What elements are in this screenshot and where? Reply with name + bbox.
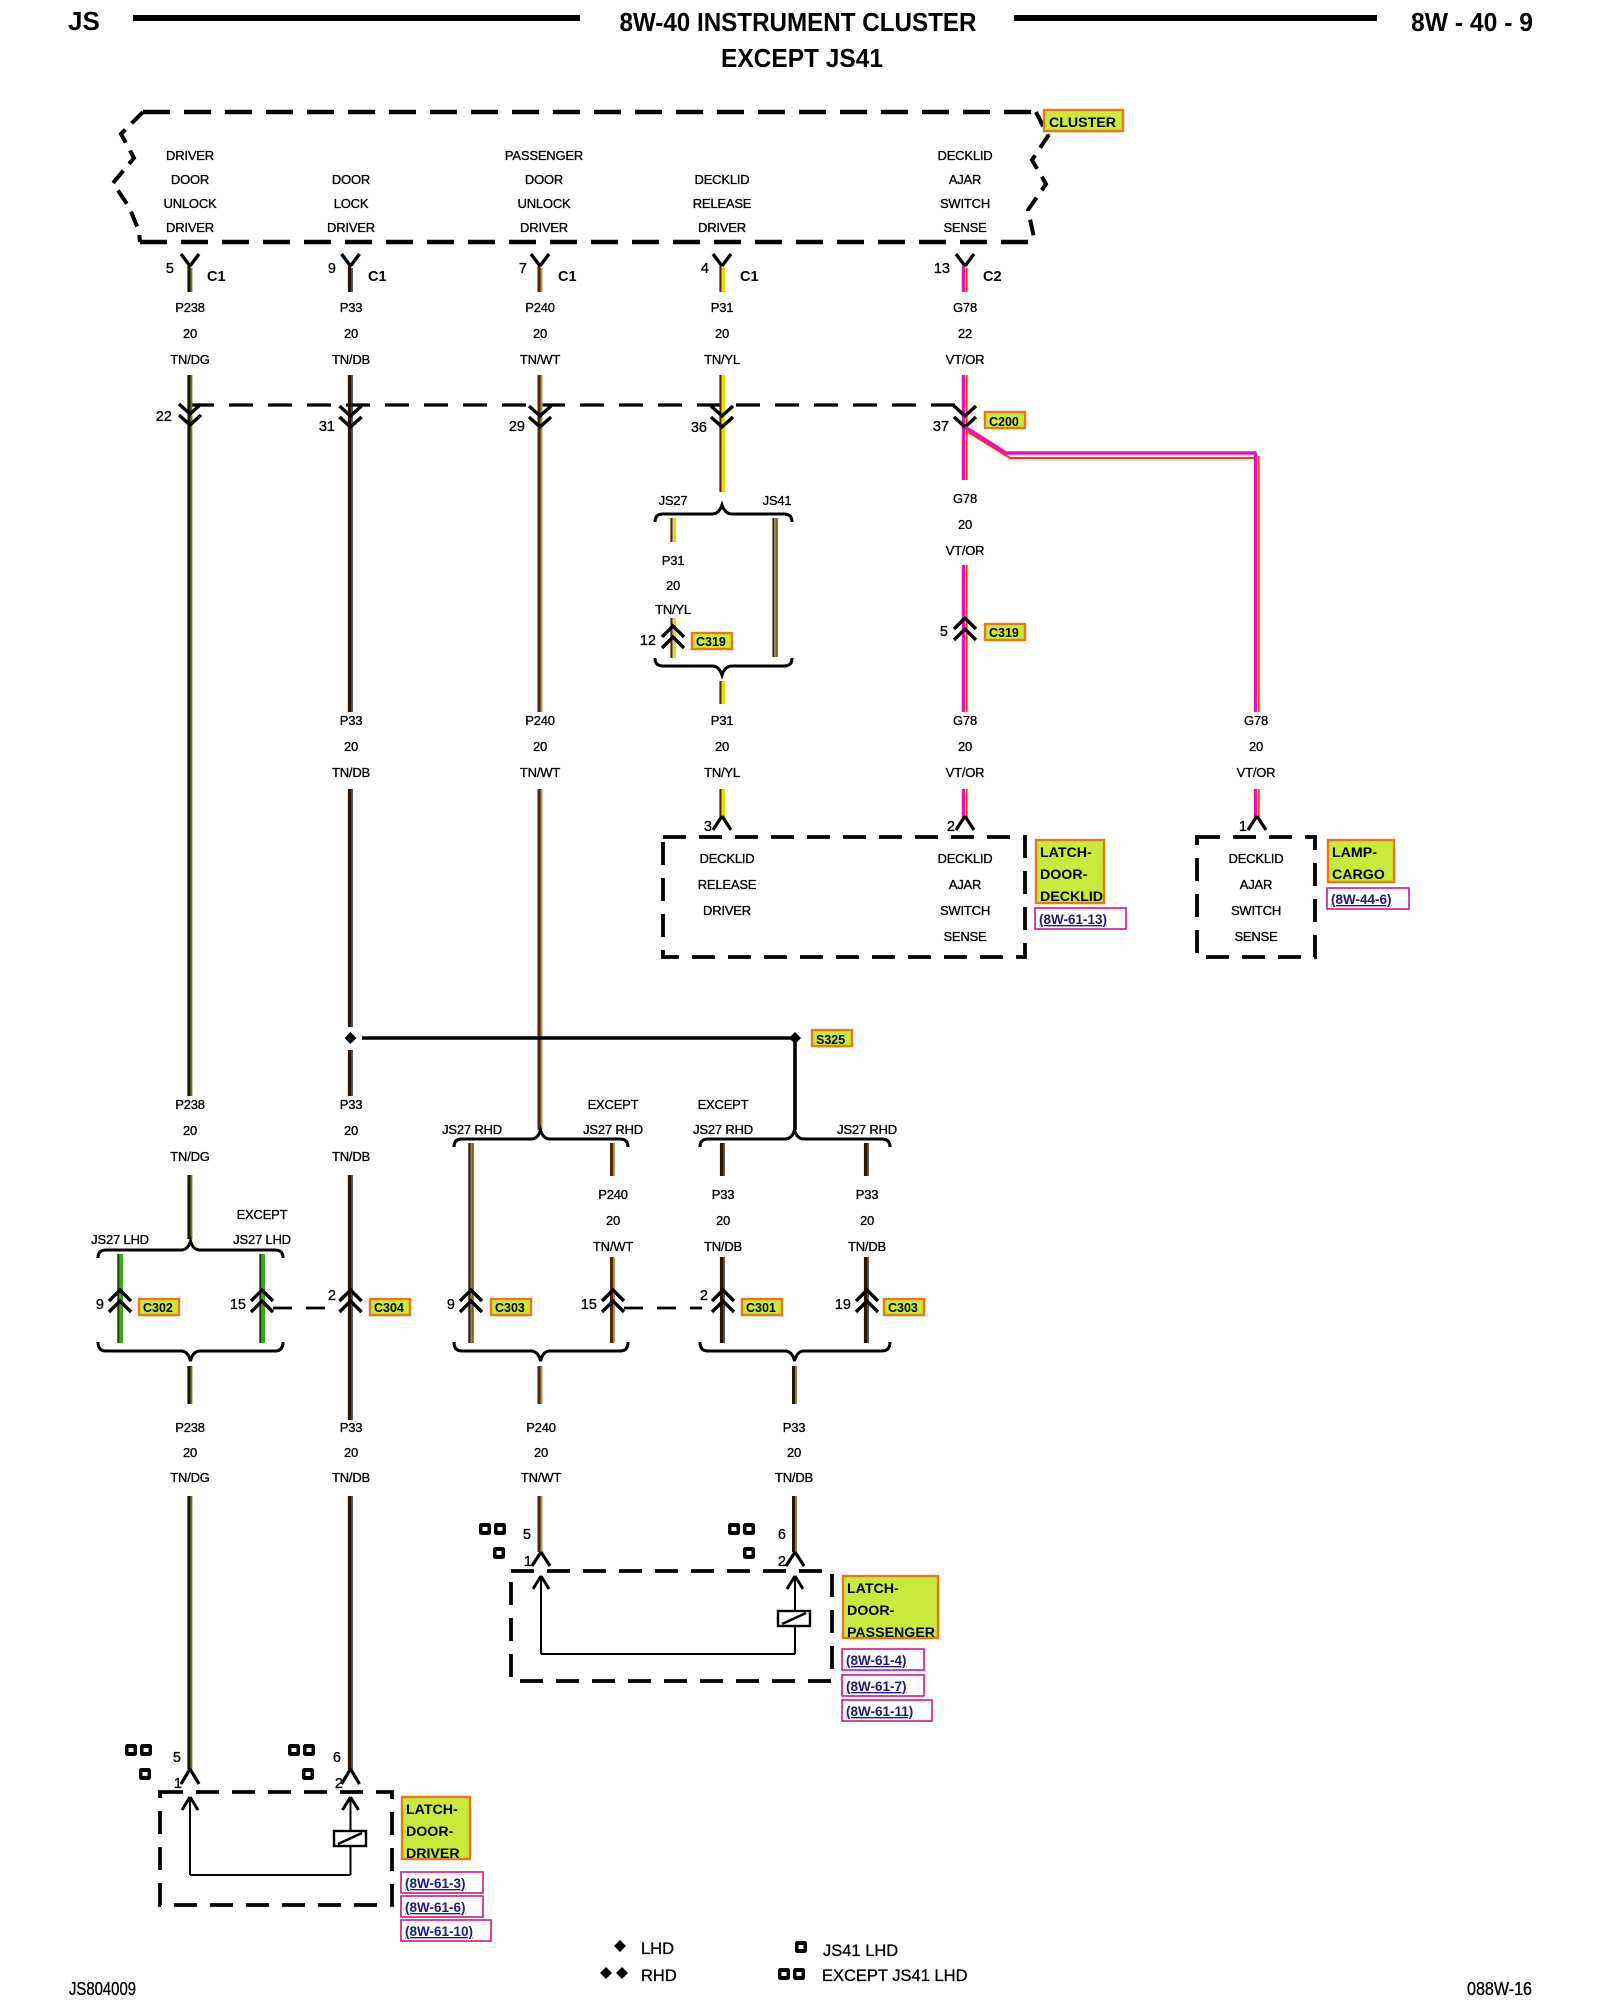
svg-text:P238: P238	[175, 300, 205, 315]
svg-text:P33: P33	[340, 713, 363, 728]
svg-text:JS27 LHD: JS27 LHD	[233, 1232, 291, 1247]
svg-text:EXCEPT: EXCEPT	[698, 1097, 749, 1112]
svg-text:20: 20	[715, 739, 729, 754]
switch arrow left (driver latch)	[182, 1797, 198, 1810]
label LAMP-CARGO	[1328, 840, 1394, 882]
svg-text:20: 20	[344, 326, 358, 341]
reference (8W-61-4)	[842, 1649, 924, 1670]
wire P31 upper (TN/YL)	[719, 375, 721, 492]
svg-text:5: 5	[166, 261, 174, 277]
svg-text:JS27: JS27	[659, 493, 688, 508]
svg-text:DECKLID: DECKLID	[695, 172, 750, 187]
svg-text:P240: P240	[598, 1187, 628, 1202]
svg-text:G78: G78	[1244, 713, 1268, 728]
svg-text:P238: P238	[175, 1097, 205, 1112]
svg-text:EXCEPT: EXCEPT	[588, 1097, 639, 1112]
terminal pin 3 (inverted Y)	[713, 816, 731, 830]
svg-text:P31: P31	[711, 713, 734, 728]
reference (8W-61-7)	[842, 1675, 924, 1696]
svg-text:JS27 RHD: JS27 RHD	[583, 1122, 643, 1137]
wire P240 stub below C1 (TN/WT)	[538, 266, 541, 292]
marker squares EXCEPT JS41 LHD (passenger pin 2)	[728, 1523, 740, 1535]
svg-text:TN/YL: TN/YL	[704, 765, 740, 780]
brace bottom C302 group	[98, 1342, 283, 1361]
svg-text:JS804009: JS804009	[69, 1979, 136, 1999]
svg-text:P33: P33	[340, 300, 363, 315]
svg-text:JS: JS	[68, 6, 100, 36]
svg-text:5: 5	[173, 1750, 181, 1766]
svg-text:DOOR-: DOOR-	[1040, 867, 1088, 883]
cluster box bottom dashed line	[140, 240, 1035, 244]
wire G78 into decklid box (VT/OR)	[962, 789, 965, 817]
wire P31 seg at C319 (TN/YL)	[670, 618, 672, 658]
marker squares EXCEPT JS41 LHD (driver pin 2)	[288, 1744, 300, 1756]
svg-text:SENSE: SENSE	[1234, 929, 1278, 944]
wire P238 main (TN/DG)	[187, 375, 190, 1096]
svg-text:CARGO: CARGO	[1332, 867, 1385, 883]
connector C302 pin 15 chevrons (up)	[251, 1290, 273, 1312]
svg-text:P240: P240	[525, 300, 555, 315]
connector C303 pin 15 chevrons (up)	[602, 1290, 624, 1312]
svg-text:S325: S325	[816, 1033, 845, 1047]
wire P31 below brace (TN/YL)	[719, 681, 721, 704]
svg-text:15: 15	[230, 1297, 246, 1313]
svg-text:EXCEPT: EXCEPT	[237, 1207, 288, 1222]
switch arrow right (passenger latch)	[787, 1576, 803, 1589]
svg-text:20: 20	[534, 1445, 548, 1460]
wire G78 branch vertical (VT/OR)	[1254, 453, 1257, 712]
terminal into driver latch left (inverted Y)	[181, 1769, 199, 1784]
svg-text:TN/DB: TN/DB	[332, 765, 370, 780]
svg-text:VT/OR: VT/OR	[946, 765, 985, 780]
wire P31 into decklid box (TN/YL)	[719, 789, 721, 817]
svg-text:LATCH-: LATCH-	[1040, 845, 1092, 861]
svg-text:DOOR: DOOR	[525, 172, 563, 187]
svg-text:20: 20	[787, 1445, 801, 1460]
svg-text:1: 1	[1239, 819, 1247, 835]
svg-text:(8W-61-7): (8W-61-7)	[846, 1679, 907, 1694]
terminal into passenger latch right (inverted Y)	[786, 1552, 804, 1566]
svg-text:TN/WT: TN/WT	[521, 1470, 561, 1485]
wire P31 stub below C1 (TN/YL)	[719, 266, 721, 292]
svg-text:20: 20	[666, 578, 680, 593]
wire G78 branch to cargo lamp (VT/OR) diagonal+horizontal	[968, 432, 1256, 458]
svg-text:8W-40 INSTRUMENT CLUSTER: 8W-40 INSTRUMENT CLUSTER	[620, 7, 977, 37]
svg-text:8W - 40 - 9: 8W - 40 - 9	[1411, 7, 1533, 37]
connector C303 pin 19 chevrons (up)	[856, 1290, 878, 1312]
splice S325 node left (diamond)	[345, 1032, 357, 1044]
svg-text:2: 2	[947, 819, 955, 835]
svg-text:LHD: LHD	[641, 1940, 674, 1958]
wire P33 to passenger latch (black)	[792, 1496, 795, 1552]
svg-text:DRIVER: DRIVER	[406, 1846, 460, 1862]
wire P240 lower (TN/WT)	[538, 789, 541, 1130]
svg-text:29: 29	[509, 419, 525, 435]
svg-text:G78: G78	[953, 491, 977, 506]
svg-text:LATCH-: LATCH-	[847, 1581, 899, 1597]
label C304	[370, 1299, 410, 1315]
label C302	[139, 1299, 179, 1315]
svg-text:20: 20	[533, 326, 547, 341]
svg-text:1: 1	[524, 1554, 532, 1570]
svg-text:DRIVER: DRIVER	[327, 220, 375, 235]
svg-text:P238: P238	[175, 1420, 205, 1435]
brace bottom C303 group	[454, 1342, 628, 1361]
svg-text:DRIVER: DRIVER	[520, 220, 568, 235]
svg-text:DRIVER: DRIVER	[166, 220, 214, 235]
wire G78 stub below C2 (VT/OR)	[962, 266, 965, 292]
component box DECKLID AJAR SWITCH SENSE (cargo)	[1197, 837, 1315, 957]
svg-text:DOOR-: DOOR-	[847, 1603, 895, 1619]
connector C302 pin 9 chevrons (up)	[109, 1290, 131, 1312]
terminal pin 2 (inverted Y)	[956, 816, 974, 830]
svg-text:20: 20	[344, 1123, 358, 1138]
svg-text:20: 20	[716, 1213, 730, 1228]
connector C301 pin 2 chevrons (up)	[712, 1290, 734, 1312]
header rule right	[1014, 15, 1377, 21]
svg-text:9: 9	[447, 1297, 455, 1313]
svg-text:TN/DB: TN/DB	[332, 352, 370, 367]
wire P33 branch2 seg2 (TN/DB)	[864, 1257, 867, 1343]
label CLUSTER	[1044, 110, 1123, 131]
svg-text:TN/YL: TN/YL	[704, 352, 740, 367]
wire P33 EXCEPT JS27 RHD stub (TN/DB)	[720, 1143, 723, 1176]
svg-text:12: 12	[640, 633, 656, 649]
svg-text:P33: P33	[712, 1187, 735, 1202]
svg-text:2: 2	[778, 1554, 786, 1570]
marker square JS41 LHD (passenger pin 1)	[493, 1547, 505, 1559]
svg-text:(8W-61-11): (8W-61-11)	[846, 1704, 913, 1719]
wire P33 branch1 seg2 (TN/DB)	[720, 1257, 723, 1343]
svg-text:4: 4	[701, 261, 709, 277]
svg-text:PASSENGER: PASSENGER	[847, 1625, 935, 1641]
svg-text:LAMP-: LAMP-	[1332, 845, 1377, 861]
wire P31 stub JS27 branch (TN/YL)	[670, 518, 672, 542]
svg-text:DECKLID: DECKLID	[1229, 851, 1284, 866]
svg-text:JS41: JS41	[763, 493, 792, 508]
svg-text:AJAR: AJAR	[949, 877, 981, 892]
svg-text:5: 5	[940, 624, 948, 640]
dashed link C302 to C304	[273, 1307, 338, 1310]
wire P33 lower (TN/DB) through S325	[348, 789, 351, 1027]
svg-text:5: 5	[523, 1527, 531, 1543]
svg-text:EXCEPT JS41 LHD: EXCEPT JS41 LHD	[822, 1967, 968, 1985]
svg-text:TN/YL: TN/YL	[655, 602, 691, 617]
connector C1 pin 9 (Y symbol)	[342, 254, 360, 266]
svg-text:CLUSTER: CLUSTER	[1049, 115, 1116, 131]
svg-text:JS27 RHD: JS27 RHD	[442, 1122, 502, 1137]
wire P240 main (TN/WT)	[538, 375, 541, 712]
svg-text:C200: C200	[989, 415, 1019, 429]
svg-text:SWITCH: SWITCH	[940, 196, 990, 211]
svg-text:SWITCH: SWITCH	[1231, 903, 1281, 918]
svg-text:20: 20	[183, 1445, 197, 1460]
label C319	[985, 624, 1025, 640]
label C303	[884, 1299, 924, 1315]
svg-text:C303: C303	[888, 1301, 918, 1315]
svg-text:C304: C304	[374, 1301, 404, 1315]
wire P33 main (TN/DB)	[348, 375, 351, 712]
terminal into passenger latch left (inverted Y)	[532, 1552, 550, 1566]
wire P238 to driver latch (TN/DG)	[187, 1496, 190, 1769]
wire G78 into cargo decklid switch (VT/OR)	[1254, 789, 1257, 817]
svg-text:DECKLID: DECKLID	[938, 851, 993, 866]
svg-text:7: 7	[519, 261, 527, 277]
wire G78 upper (VT/OR)	[962, 375, 965, 480]
svg-text:VT/OR: VT/OR	[946, 543, 985, 558]
svg-text:DECKLID: DECKLID	[938, 148, 993, 163]
wire P238 stub below C1 (TN/DG)	[187, 266, 190, 292]
label S325	[812, 1030, 852, 1046]
legend EXCEPT JS41 LHD squares	[778, 1968, 790, 1980]
connector C304 pin 2 chevrons (up)	[340, 1290, 362, 1312]
svg-text:G78: G78	[953, 300, 977, 315]
svg-text:TN/WT: TN/WT	[520, 765, 560, 780]
svg-text:P33: P33	[340, 1097, 363, 1112]
svg-text:SENSE: SENSE	[943, 929, 987, 944]
svg-text:JS27 LHD: JS27 LHD	[91, 1232, 149, 1247]
wire S325 to C301 brace (black)	[793, 1038, 797, 1130]
svg-text:(8W-61-13): (8W-61-13)	[1039, 912, 1107, 927]
reference (8W-61-10)	[401, 1920, 491, 1941]
marker square JS41 LHD (driver pin 2)	[302, 1768, 314, 1780]
legend RHD diamonds	[600, 1967, 612, 1979]
wire P240 JS27 RHD branch (TN/WT long)	[468, 1143, 470, 1343]
svg-text:RHD: RHD	[641, 1967, 677, 1985]
svg-text:20: 20	[860, 1213, 874, 1228]
svg-text:C319: C319	[989, 626, 1019, 640]
svg-text:P33: P33	[340, 1420, 363, 1435]
svg-text:20: 20	[344, 1445, 358, 1460]
svg-text:P33: P33	[856, 1187, 879, 1202]
wire JS41 branch (TN/YL dark)	[773, 518, 775, 657]
svg-text:15: 15	[581, 1297, 597, 1313]
wire P240 branch seg2 (TN/WT)	[610, 1257, 613, 1343]
cluster box left torn edge	[113, 112, 143, 242]
wire P33 to driver latch (TN/DB)	[348, 1496, 351, 1769]
svg-text:37: 37	[933, 419, 949, 435]
svg-text:TN/DB: TN/DB	[332, 1470, 370, 1485]
svg-text:9: 9	[96, 1297, 104, 1313]
reference (8W-61-11)	[842, 1700, 932, 1721]
wire P240 below brace (TN/WT)	[538, 1366, 541, 1404]
svg-text:088W-16: 088W-16	[1467, 1979, 1532, 1999]
legend JS41 LHD square	[795, 1941, 807, 1953]
svg-text:DRIVER: DRIVER	[698, 220, 746, 235]
C200 pin 29 chevrons	[529, 406, 551, 427]
wire P238 into brace (TN/DG)	[187, 1175, 190, 1239]
svg-text:(8W-44-6): (8W-44-6)	[1331, 892, 1392, 907]
wire P238 EXCEPT JS27 LHD branch (green)	[259, 1254, 261, 1343]
svg-text:C1: C1	[558, 269, 577, 285]
svg-text:22: 22	[156, 409, 172, 425]
svg-text:20: 20	[183, 326, 197, 341]
svg-text:UNLOCK: UNLOCK	[518, 196, 572, 211]
svg-text:20: 20	[958, 517, 972, 532]
connector C200 dashed line	[190, 403, 965, 406]
svg-text:AJAR: AJAR	[949, 172, 981, 187]
reference (8W-61-3)	[401, 1872, 483, 1893]
brace bottom C301 group	[700, 1342, 890, 1361]
component box DECKLID RELEASE DRIVER / DECKLID AJAR SWITCH SENSE	[663, 837, 1025, 957]
header rule left	[133, 15, 580, 21]
connector C319 pin 5 chevrons (up)	[954, 618, 976, 640]
svg-text:DRIVER: DRIVER	[703, 903, 751, 918]
svg-text:3: 3	[704, 819, 712, 835]
svg-text:SENSE: SENSE	[943, 220, 987, 235]
svg-text:DOOR-: DOOR-	[406, 1824, 454, 1840]
reference (8W-61-13)	[1035, 908, 1126, 929]
svg-text:(8W-61-4): (8W-61-4)	[846, 1653, 907, 1668]
svg-text:(8W-61-3): (8W-61-3)	[405, 1876, 466, 1891]
svg-text:JS27 RHD: JS27 RHD	[837, 1122, 897, 1137]
legend LHD diamond	[614, 1940, 626, 1952]
svg-text:P240: P240	[526, 1420, 556, 1435]
marker squares EXCEPT JS41 LHD (passenger pin 1)	[479, 1523, 491, 1535]
C200 pin 31 chevrons	[340, 406, 362, 427]
relay element (passenger latch)	[778, 1611, 810, 1626]
splice S325 node right (diamond)	[789, 1032, 801, 1044]
splice S325 bus wire	[362, 1036, 795, 1040]
relay element (driver latch)	[334, 1831, 366, 1846]
svg-text:JS41 LHD: JS41 LHD	[823, 1942, 898, 1960]
wire P238 below brace (TN/DG)	[187, 1366, 190, 1404]
connector C303 pin 9 chevrons (up)	[460, 1290, 482, 1312]
link wire inside driver latch	[190, 1874, 351, 1876]
svg-text:C2: C2	[983, 269, 1002, 285]
wire P33 through C304 (TN/DB)	[348, 1175, 351, 1420]
svg-text:AJAR: AJAR	[1240, 877, 1272, 892]
svg-text:TN/DB: TN/DB	[704, 1239, 742, 1254]
svg-text:9: 9	[328, 261, 336, 277]
svg-text:PASSENGER: PASSENGER	[505, 148, 583, 163]
brace bottom (JS27/JS41)	[655, 658, 792, 675]
svg-text:20: 20	[344, 739, 358, 754]
connector C1 pin 7 (Y symbol)	[531, 254, 549, 266]
svg-text:6: 6	[333, 1750, 341, 1766]
svg-text:LATCH-: LATCH-	[406, 1802, 458, 1818]
wire P33 JS27 RHD stub (TN/DB)	[864, 1143, 867, 1176]
svg-text:31: 31	[319, 419, 335, 435]
wire P33 stub below C1 (TN/DB)	[348, 266, 351, 292]
label LATCH-DOOR-DECKLID	[1036, 840, 1104, 903]
component box LATCH-DOOR-PASSENGER	[511, 1571, 832, 1681]
label C303	[491, 1299, 531, 1315]
C200 pin 37 chevrons	[954, 406, 976, 427]
marker square JS41 LHD (passenger pin 2)	[743, 1547, 755, 1559]
svg-text:20: 20	[1249, 739, 1263, 754]
svg-text:VT/OR: VT/OR	[1237, 765, 1276, 780]
svg-text:TN/DG: TN/DG	[170, 1149, 210, 1164]
wire P240 to passenger latch (TN/WT)	[538, 1496, 541, 1552]
brace top C301 group	[700, 1130, 890, 1147]
label LATCH-DOOR-PASSENGER	[843, 1576, 938, 1638]
svg-text:DECKLID: DECKLID	[700, 851, 755, 866]
svg-text:13: 13	[934, 261, 950, 277]
wire P238 JS27 LHD branch (green)	[117, 1254, 119, 1343]
svg-text:20: 20	[183, 1123, 197, 1138]
svg-text:36: 36	[691, 420, 707, 436]
svg-text:C301: C301	[746, 1301, 776, 1315]
svg-text:(8W-61-6): (8W-61-6)	[405, 1900, 466, 1915]
label C319	[692, 633, 732, 649]
svg-text:P31: P31	[662, 553, 685, 568]
link wire inside passenger latch	[541, 1653, 795, 1655]
svg-text:20: 20	[715, 326, 729, 341]
wire P33 below brace (black)	[792, 1366, 795, 1404]
label C200	[985, 412, 1025, 428]
connector C319 pin 12 chevrons (up)	[662, 626, 684, 648]
reference (8W-44-6)	[1327, 888, 1409, 909]
svg-text:P31: P31	[711, 300, 734, 315]
svg-text:C1: C1	[207, 269, 226, 285]
C200 pin 36 chevrons	[711, 406, 733, 427]
reference (8W-61-6)	[401, 1896, 483, 1917]
svg-text:EXCEPT JS41: EXCEPT JS41	[721, 43, 883, 73]
connector C1 pin 5 (Y symbol)	[181, 254, 199, 266]
svg-text:P240: P240	[525, 713, 555, 728]
brace top C302 group	[98, 1241, 283, 1258]
label C301	[742, 1299, 782, 1315]
svg-text:2: 2	[328, 1288, 336, 1304]
brace top (JS27/JS41)	[655, 505, 792, 522]
svg-text:C302: C302	[143, 1301, 173, 1315]
svg-text:P33: P33	[783, 1420, 806, 1435]
svg-text:1: 1	[174, 1776, 182, 1792]
svg-text:TN/WT: TN/WT	[593, 1239, 633, 1254]
terminal pin 1 (inverted Y)	[1248, 816, 1266, 830]
svg-text:TN/DB: TN/DB	[848, 1239, 886, 1254]
svg-text:LOCK: LOCK	[334, 196, 369, 211]
label LATCH-DOOR-DRIVER	[402, 1797, 470, 1859]
svg-text:VT/OR: VT/OR	[946, 352, 985, 367]
svg-text:2: 2	[700, 1288, 708, 1304]
svg-text:G78: G78	[953, 713, 977, 728]
svg-text:UNLOCK: UNLOCK	[164, 196, 218, 211]
wire P240 EXCEPT JS27 RHD stub (TN/WT)	[610, 1143, 613, 1176]
component box LATCH-DOOR-DRIVER	[160, 1792, 392, 1905]
marker square JS41 LHD (driver pin 1)	[139, 1768, 151, 1780]
dashed link C303 to C301	[624, 1307, 702, 1310]
svg-text:TN/WT: TN/WT	[520, 352, 560, 367]
svg-text:DOOR: DOOR	[171, 172, 209, 187]
connector C1 pin 4 (Y symbol)	[713, 254, 731, 266]
svg-text:20: 20	[958, 739, 972, 754]
svg-text:20: 20	[533, 739, 547, 754]
svg-text:TN/DG: TN/DG	[170, 352, 210, 367]
svg-text:22: 22	[958, 326, 972, 341]
svg-text:C1: C1	[368, 269, 387, 285]
svg-text:DRIVER: DRIVER	[166, 148, 214, 163]
svg-text:C1: C1	[740, 269, 759, 285]
svg-text:19: 19	[835, 1297, 851, 1313]
svg-text:20: 20	[606, 1213, 620, 1228]
switch arrow left (passenger latch)	[533, 1576, 549, 1589]
svg-text:SWITCH: SWITCH	[940, 903, 990, 918]
brace top C303 group	[454, 1130, 628, 1147]
svg-text:DECKLID: DECKLID	[1040, 889, 1103, 905]
svg-text:RELEASE: RELEASE	[693, 196, 752, 211]
svg-text:TN/DB: TN/DB	[775, 1470, 813, 1485]
cluster box right torn edge	[1028, 112, 1048, 242]
svg-text:RELEASE: RELEASE	[698, 877, 757, 892]
svg-text:JS27 RHD: JS27 RHD	[693, 1122, 753, 1137]
svg-text:C303: C303	[495, 1301, 525, 1315]
switch arrow right (driver latch)	[343, 1797, 359, 1810]
svg-text:TN/DG: TN/DG	[170, 1470, 210, 1485]
cluster box top dashed line	[143, 110, 1036, 114]
svg-text:6: 6	[778, 1527, 786, 1543]
